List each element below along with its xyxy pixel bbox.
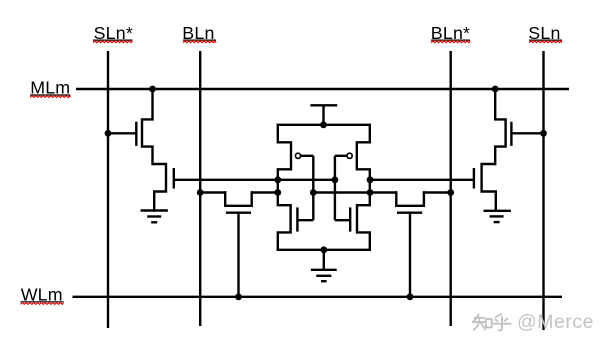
ground symbol G1 (left branch): [141, 209, 168, 211]
transistor Q4 (right pull-down NMOS, gate to node Qb): [482, 164, 496, 212]
junction: node Qb / right inverter output lower: [367, 189, 374, 196]
junction: node Q rail / left inverter output: [274, 176, 281, 183]
junction: VDD / top rail: [320, 121, 327, 128]
transistor Q2 (left pull-down NMOS, gate to node Q): [153, 164, 167, 212]
power supply VDD symbol: [310, 104, 337, 106]
wire: bit line BLn (vertical bus): [199, 51, 201, 326]
junction: node Q / pass Q5 drain: [274, 189, 281, 196]
transistor P2 (right inverter pull-up): [357, 124, 370, 181]
transistor Q6 (right access/pass NMOS, gate to WLm): [396, 191, 424, 206]
transistor Q1 (left search NMOS, drain to MLm, gate to SLn*): [142, 88, 153, 165]
wire: search line SLn (vertical bus): [542, 51, 544, 330]
wire: word line WLm: [73, 296, 563, 298]
junction: SLn / Q3 gate: [540, 130, 547, 137]
wire: search line SLn* (vertical bus): [107, 51, 109, 328]
transistor N2 (right inverter pull-down NMOS): [357, 179, 370, 251]
wire: node Qb rail lower (left inverter input to pass Q6): [313, 191, 397, 193]
junction: node Qb / left inverter gates: [310, 189, 317, 196]
wire: pass transistor Q6 to BLn*: [423, 191, 451, 193]
transistor Q3 (right search NMOS, drain to MLm, gate to SLn): [495, 88, 505, 165]
ground symbol G2 (right branch): [484, 210, 511, 212]
svg-text:@Merce: @Merce: [517, 311, 594, 333]
ground symbol G3 (latch source ground): [323, 250, 325, 270]
junction: node Q rail / right inverter gates: [332, 176, 339, 183]
junction: WLm / Q6 gate: [407, 293, 414, 300]
wire: BLn to pass transistor Q5: [200, 191, 226, 193]
junction: node Qb rail / right inverter output: [367, 176, 374, 183]
junction: MLm / Q1 drain: [149, 86, 156, 93]
junction: BLn* / pass Q6: [447, 189, 454, 196]
junction: SLn* / Q1 gate: [105, 130, 112, 137]
wire: node Q rail (left segment, Q2 gate to right inverter input): [174, 179, 335, 181]
transistor Q5 (left access/pass NMOS, gate to WLm): [225, 191, 252, 206]
wire: latch bottom rail: [277, 249, 371, 251]
wire: pass transistor Q5 to node Q: [251, 191, 278, 193]
wire: node Qb rail (right segment, to Q4 gate): [370, 179, 474, 181]
wire: node Qb cross-couple column (left inverter input): [312, 156, 314, 220]
junction: MLm / Q3 drain: [492, 86, 499, 93]
transistor P1 (left inverter pull-up): [278, 124, 291, 181]
junction: BLn / pass Q5: [197, 189, 204, 196]
wire: match line MLm: [76, 88, 569, 90]
junction: WLm / Q5 gate: [235, 293, 242, 300]
watermark: Zhihu logo text (hand-drawn CJK): [473, 314, 511, 330]
transistor N1 (left inverter pull-down NMOS): [278, 179, 291, 251]
wire: node Q cross-couple column (right inverter input): [334, 156, 336, 220]
wire: latch top rail: [277, 124, 371, 126]
junction: bottom rail / ground stem: [320, 246, 327, 253]
wire: bit line BLn* (vertical bus): [450, 51, 452, 326]
